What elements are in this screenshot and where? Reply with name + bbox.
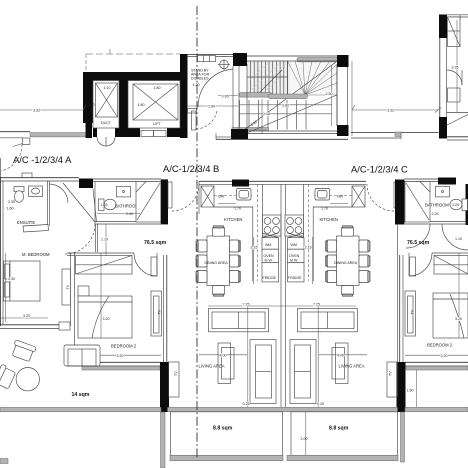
WM box C (288, 238, 305, 250)
dining chairs C right (359, 240, 369, 252)
svg-text:DINING AREA: DINING AREA (205, 261, 229, 265)
door arc right unit (447, 70, 462, 85)
coffee table B (218, 343, 231, 384)
GROUP: unit B (163, 163, 286, 407)
GROUP: balconies (0, 340, 468, 468)
WC dim 1.90 (188, 105, 238, 107)
C bathroom east wall (466, 184, 468, 225)
terrace edge bar (0, 407, 161, 411)
svg-text:8.8 sqm: 8.8 sqm (329, 426, 349, 432)
svg-text:1.80: 1.80 (138, 103, 145, 107)
svg-text:2.40: 2.40 (126, 212, 133, 216)
living sofa horizontal B (209, 309, 269, 332)
WC dim 0.95 (218, 95, 238, 97)
bedroom2 dim 3.20 bottom (77, 354, 161, 356)
GROUP: staircase (216, 53, 352, 139)
stair lower flight treads (240, 100, 307, 130)
svg-text:2.25: 2.25 (432, 212, 439, 216)
dim 7.25 B (247, 306, 249, 407)
stair hatch diagonals (249, 63, 288, 94)
svg-text:3.20: 3.20 (441, 354, 448, 358)
svg-text:TV: TV (411, 309, 415, 314)
svg-text:3.35: 3.35 (452, 66, 459, 70)
svg-text:KITCHEN: KITCHEN (224, 217, 242, 222)
bathroom C toilet (462, 199, 468, 211)
west wall bedroom2 C doublet (399, 255, 401, 362)
entry door arc C (394, 182, 398, 208)
svg-text:KITCHEN: KITCHEN (320, 217, 338, 222)
wall: west wall middle doublet (439, 38, 441, 117)
bedroom2 north wall (67, 252, 134, 254)
dim line horizontal B (208, 305, 283, 307)
GROUP: unit A (0, 132, 179, 412)
bathroom A sink (117, 186, 131, 197)
svg-text:TV: TV (66, 284, 70, 289)
kitchen sink B (237, 189, 252, 201)
svg-text:3.30: 3.30 (8, 277, 15, 281)
wall: lift right / WC left wall (180, 54, 188, 138)
right edge bar (405, 407, 468, 411)
dim 3.32 right (352, 109, 438, 111)
shower C (405, 182, 430, 223)
black block kitchen B wall (232, 180, 249, 187)
terrace table (16, 368, 39, 391)
duct X-cross (96, 83, 118, 117)
terrace chair 2 (0, 364, 17, 391)
svg-text:M W: M W (265, 259, 273, 263)
bathroom C bottom wall (430, 221, 466, 223)
dining chairs B left (197, 240, 207, 252)
svg-text:A/C-1/2/3/4 B: A/C-1/2/3/4 B (163, 163, 219, 174)
wall: duct/lift top wall (83, 72, 187, 81)
duct interior (93, 81, 119, 129)
shower A (136, 182, 161, 223)
dim 4.00 B (199, 354, 247, 356)
hob B (263, 215, 282, 236)
stair direction diagonals (240, 62, 336, 133)
dining table C (337, 236, 360, 286)
bathroom dim line 2.40 (97, 213, 140, 215)
svg-text:4.00: 4.00 (220, 353, 227, 357)
svg-text:1.18: 1.18 (263, 112, 270, 116)
bed A2 (78, 296, 132, 338)
stair bottom sill bar (232, 128, 269, 131)
ensuite shower bench (23, 225, 49, 233)
svg-text:GW: GW (337, 195, 344, 199)
svg-text:LIFT: LIFT (153, 122, 161, 126)
M bedroom TV niche (62, 269, 71, 305)
svg-text:TV: TV (158, 309, 162, 314)
coffee table C (336, 343, 349, 384)
ensuite door arc (50, 184, 69, 203)
svg-text:LIVING AREA: LIVING AREA (199, 364, 225, 369)
stair landing line (247, 76, 288, 78)
lift interior (128, 81, 180, 129)
balcony C outline (291, 412, 398, 456)
stair left wall column (239, 64, 247, 131)
dim 3.15 C (312, 237, 314, 284)
WC cabinet (198, 56, 216, 62)
M bedroom dim 3.20 bottom (0, 317, 48, 319)
wardrobe bedroom2 C (434, 256, 468, 275)
living sofa horizontal C (298, 309, 358, 332)
svg-text:M. BEDROOM: M. BEDROOM (22, 252, 50, 257)
balcony side wall right (401, 412, 405, 462)
hall dim 1.10 (105, 224, 107, 258)
svg-text:2.00: 2.00 (301, 437, 308, 441)
GROUP: top service block (83, 49, 238, 146)
handrail top-right (297, 58, 338, 62)
east wall bedroom2 doublet (163, 255, 165, 362)
dining chairs B right (230, 240, 240, 252)
dim 3.15 B (253, 237, 255, 284)
svg-text:76.5 sqm: 76.5 sqm (144, 240, 167, 246)
WC top wall (187, 54, 236, 56)
counter dashes C (314, 195, 352, 197)
svg-text:GW: GW (218, 195, 225, 199)
svg-text:1.10: 1.10 (104, 86, 111, 90)
TV niche A2 (151, 291, 162, 336)
fridge box B (262, 263, 279, 282)
wall: lift bottom segments (128, 128, 140, 137)
lift door sill (141, 131, 154, 137)
svg-text:TV: TV (389, 371, 393, 376)
svg-text:BEDROOM 2: BEDROOM 2 (111, 344, 137, 349)
bed A2 pillow (78, 286, 89, 296)
svg-text:A/C-1/2/3/4 C: A/C-1/2/3/4 C (351, 164, 408, 175)
bed C2 (433, 293, 468, 338)
stair dim 2.50 (331, 65, 333, 126)
bathroom door leaf diagonals (63, 183, 95, 222)
svg-text:WM: WM (291, 243, 297, 247)
svg-text:OVEN: OVEN (264, 254, 275, 258)
svg-text:2.50: 2.50 (326, 92, 333, 96)
dining chair backs B (196, 226, 241, 296)
kitchen dim 1.70 C (330, 203, 348, 205)
black block A top (79, 179, 93, 189)
svg-text:7.25: 7.25 (243, 302, 250, 306)
bedroom2 C door arc (409, 253, 432, 276)
dim 3.35 (456, 20, 458, 112)
svg-text:4.00: 4.00 (337, 353, 344, 357)
stair dim 3.80 (239, 104, 332, 106)
dining chairs B top/bottom (213, 227, 225, 236)
svg-text:76.5 sqm: 76.5 sqm (407, 240, 430, 246)
right unit top edge (447, 14, 468, 16)
svg-text:3.20: 3.20 (103, 317, 110, 321)
stair upper flight treads (251, 61, 288, 94)
terrace top wall (0, 131, 30, 133)
svg-text:3.15: 3.15 (251, 246, 258, 250)
handrail right (268, 94, 308, 99)
svg-text:0.25: 0.25 (317, 402, 324, 406)
svg-text:3.20: 3.20 (23, 314, 30, 318)
svg-text:0.25: 0.25 (243, 402, 250, 406)
ensuite toilet (14, 187, 24, 192)
svg-text:BEDROOM 2: BEDROOM 2 (427, 343, 453, 348)
WM box B (262, 238, 279, 250)
TV label lower (169, 362, 180, 397)
M bedroom bed (4, 261, 41, 301)
svg-text:DINING AREA: DINING AREA (334, 261, 358, 265)
svg-text:1.10: 1.10 (455, 237, 462, 241)
small shelf (151, 257, 157, 276)
kitchen counter C (313, 207, 352, 281)
stair right wall lines (336, 65, 338, 126)
wardrobe upper (448, 17, 461, 47)
corner X-closet B (201, 186, 214, 207)
svg-text:1.70: 1.70 (321, 207, 328, 211)
svg-text:0.95: 0.95 (222, 95, 229, 99)
M bedroom east wall (70, 253, 72, 326)
kitchen sink C (315, 189, 330, 201)
living sofa vertical B (250, 340, 276, 404)
hall door swing dashed (65, 224, 95, 254)
entry door leaf B (168, 182, 172, 208)
mid edge bar (168, 407, 398, 411)
wall bump (22, 173, 32, 178)
small shelf C (410, 257, 416, 276)
ensuite divider wall (47, 181, 49, 226)
svg-text:3.80: 3.80 (282, 103, 289, 107)
closet lower (448, 88, 461, 102)
living sofa vertical C (290, 340, 316, 404)
svg-text:ENSUITE: ENSUITE (17, 220, 35, 225)
entry door swing dashed (1, 144, 22, 171)
wardrobe bedroom2 A (76, 256, 133, 275)
M bedroom bottom wall (0, 324, 64, 326)
svg-text:3.15: 3.15 (305, 246, 312, 250)
entry door swing B dashed (172, 184, 199, 211)
dining chairs C left (327, 240, 337, 252)
vestibule east wall (95, 224, 97, 252)
stair dim 1.18 (261, 99, 263, 133)
GROUP: top-right unit (351, 15, 468, 141)
svg-text:WM: WM (265, 243, 271, 247)
svg-text:1.25: 1.25 (101, 203, 108, 207)
stair top wall lines (247, 55, 337, 57)
corridor wall right extension (447, 136, 468, 138)
C west party wall line (397, 224, 399, 362)
oven box C (288, 249, 305, 263)
counter dashes B (214, 195, 252, 197)
C hall arcs (406, 224, 430, 248)
lift X-cross (133, 84, 178, 120)
A west wall (0, 177, 2, 326)
balcony side wall left (161, 412, 166, 468)
dining chairs C top/bottom (342, 227, 354, 236)
svg-text:14 sqm: 14 sqm (72, 392, 90, 398)
stair winder fan (288, 61, 338, 95)
terrace sofa (64, 345, 100, 366)
hob C (285, 215, 304, 236)
bedroom2 window sill (82, 366, 160, 370)
balcony dim 2.00 (305, 412, 307, 455)
bathroom C sink (436, 186, 450, 197)
svg-text:3.20: 3.20 (117, 354, 124, 358)
bathroom A toilet (99, 199, 105, 211)
wardrobe diagonal bottom (447, 115, 468, 126)
TV niche C2 (405, 291, 416, 336)
svg-text:A/C -1/2/3/4 A: A/C -1/2/3/4 A (13, 154, 72, 165)
svg-text:8.8 sqm: 8.8 sqm (213, 426, 233, 432)
svg-text:FRIDGE: FRIDGE (263, 276, 277, 280)
dashed setback line above duct (86, 53, 180, 55)
dining chair backs C (326, 226, 371, 296)
bedroom2 C dim 3.20 bottom (405, 354, 468, 356)
unit B top wall (199, 180, 283, 182)
dining table B (207, 236, 230, 286)
C bedroom2 north wall (432, 252, 468, 254)
balcony bottom bar B (170, 455, 283, 460)
bed A2 dim 3.20 (100, 253, 102, 338)
svg-text:1.70: 1.70 (234, 207, 241, 211)
entry door leaf (13, 144, 22, 147)
fridge box C (288, 263, 305, 282)
bathroom top wall (93, 178, 161, 180)
svg-text:1.90: 1.90 (208, 105, 215, 109)
ensuite sink (29, 186, 43, 197)
svg-text:1.80: 1.80 (88, 103, 95, 107)
svg-text:2.30: 2.30 (8, 200, 15, 204)
party wall B/C (280, 184, 282, 407)
svg-text:DUCT: DUCT (101, 121, 112, 125)
GROUP: unit C (283, 164, 468, 413)
svg-text:3.20: 3.20 (455, 317, 462, 321)
svg-text:1.20: 1.20 (193, 83, 200, 87)
bedroom2 bottom wall (77, 361, 161, 363)
unit C top wall (283, 180, 366, 182)
svg-text:3.32: 3.32 (387, 109, 394, 113)
oven box B (262, 249, 279, 263)
svg-text:3.32: 3.32 (33, 109, 40, 113)
terrace chair 1 (10, 340, 36, 363)
svg-text:1.50: 1.50 (407, 389, 414, 393)
svg-text:OVEN: OVEN (289, 254, 300, 258)
wall black C lower (397, 362, 406, 412)
bedroom2 door arc (134, 253, 157, 276)
wall: duct/lift divider (119, 80, 128, 137)
bathroom bottom wall (95, 221, 136, 223)
wall black A/B lower (160, 362, 169, 412)
svg-text:1.60: 1.60 (7, 207, 14, 211)
wall black A/B upper (161, 179, 168, 224)
centerline axis (196, 6, 198, 460)
dim 1.50 C (416, 370, 418, 407)
C bathroom top wall (405, 178, 439, 180)
black block C bathroom top (438, 178, 456, 185)
stair mid boundary (287, 61, 289, 94)
svg-text:M W: M W (290, 259, 298, 263)
corridor top wall of unit C (351, 131, 439, 133)
svg-text:LIVING AREA: LIVING AREA (339, 364, 365, 369)
wall: right unit west wall bottom (439, 117, 447, 139)
dim 4.00 C (319, 354, 367, 356)
wall jog box (22, 138, 30, 144)
dim line horizontal C (283, 305, 356, 307)
stair corner blocks (233, 53, 247, 66)
bedroom2 C bottom wall (405, 361, 468, 363)
corner X-closet C (352, 186, 365, 207)
WC door arc (198, 69, 233, 107)
stair outer dim line (351, 61, 353, 136)
dim 3.32 left (0, 109, 83, 111)
entry glazing bar (30, 133, 86, 137)
dim 7.25 C (317, 306, 319, 407)
svg-text:TV: TV (174, 371, 178, 376)
svg-text:1.10: 1.10 (101, 238, 108, 242)
bed C2 dim 3.20 (458, 253, 460, 338)
handrail left (239, 93, 272, 98)
svg-text:BATHROOM: BATHROOM (425, 203, 449, 208)
black block C bathroom west (395, 180, 405, 225)
WC bottom door (188, 109, 197, 114)
balcony B outline (171, 412, 283, 456)
kitchen dim 1.70 B (218, 203, 236, 205)
WC toilet (220, 60, 229, 69)
svg-text:FRIDGE: FRIDGE (288, 276, 302, 280)
unit A top wall left (0, 177, 79, 179)
svg-text:1.25: 1.25 (452, 203, 459, 207)
svg-text:1.80: 1.80 (154, 86, 161, 90)
svg-text:DISABLES: DISABLES (191, 77, 209, 81)
stair bottom wall lines (247, 133, 337, 135)
M bedroom dim 3.30 (5, 253, 7, 322)
wall: duct left wall (83, 80, 93, 123)
wall: duct bottom (93, 128, 97, 137)
stair hatch background (247, 61, 290, 94)
bedroom2 C window sill (406, 366, 468, 370)
left terrace bottom mark (0, 459, 8, 464)
wall: right unit west wall top (439, 15, 447, 39)
duct double doors (97, 137, 106, 146)
svg-text:7.25: 7.25 (313, 302, 320, 306)
balcony bottom bar C (287, 455, 398, 460)
TV label lower C (387, 362, 398, 397)
wall gray piece (395, 132, 401, 137)
kitchen counter B (214, 207, 253, 281)
